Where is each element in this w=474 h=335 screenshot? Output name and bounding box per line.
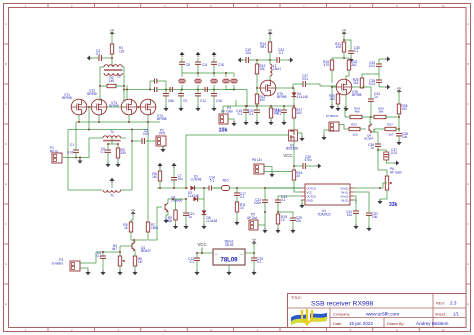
capacitor C27: [293, 74, 337, 88]
ground: [379, 84, 390, 89]
wire: [88, 107, 90, 130]
svg-text:10: 10: [297, 174, 301, 178]
connector P7 BFO: [326, 114, 349, 131]
svg-text:G: G: [5, 262, 7, 266]
connector P1 RF In: [50, 146, 62, 163]
capacitor C10: [183, 198, 195, 224]
diode D4: [292, 88, 308, 108]
capacitor C37: [377, 148, 397, 163]
svg-text:REV:: REV:: [436, 301, 445, 306]
wire: [166, 89, 247, 91]
power VCC flag: [197, 242, 206, 253]
svg-text:4k7: 4k7: [112, 247, 117, 251]
svg-text:G: G: [467, 262, 469, 266]
wire: [79, 115, 148, 122]
wire: [107, 138, 119, 145]
svg-text:R27: R27: [387, 123, 393, 127]
transistor Q2 2N3906: [148, 196, 182, 241]
svg-text:+9v: +9v: [252, 238, 257, 242]
svg-text:T2: T2: [110, 130, 114, 134]
transistor Q1 BC847: [132, 241, 151, 253]
ground: [321, 130, 329, 140]
svg-text:B: B: [5, 62, 7, 66]
transistor VT6: [336, 79, 361, 97]
ground: [163, 106, 168, 111]
wire: [96, 246, 132, 252]
power +9v AGC: [131, 208, 136, 215]
capacitor C33: [362, 87, 380, 118]
resistor R6: [133, 250, 143, 270]
resistor R9: [165, 199, 177, 224]
capacitor C34: [362, 59, 382, 74]
svg-text:R10: R10: [223, 179, 229, 183]
crystal Z1: [179, 73, 185, 90]
svg-text:VCC: VCC: [283, 153, 292, 158]
svg-text:10k: 10k: [219, 128, 228, 134]
svg-text:2k2: 2k2: [352, 63, 357, 67]
crystal Z3: [211, 73, 217, 90]
ground: [173, 224, 178, 229]
svg-text:BF998: BF998: [87, 92, 97, 96]
svg-text:BC847: BC847: [364, 137, 374, 141]
ground: [262, 225, 267, 233]
svg-text:0.01: 0.01: [143, 132, 149, 136]
ground: [100, 270, 105, 275]
svg-text:C8: C8: [186, 63, 190, 67]
svg-text:D: D: [467, 142, 469, 146]
svg-text:F: F: [467, 222, 469, 226]
ground: [288, 57, 293, 62]
svg-text:10uH: 10uH: [273, 67, 281, 71]
wire: [352, 86, 363, 88]
svg-text:10u: 10u: [372, 215, 378, 219]
wire detector line: [157, 187, 188, 189]
svg-text:56k: 56k: [379, 110, 384, 114]
wire: [196, 252, 213, 254]
svg-text:F: F: [5, 222, 7, 226]
capacitor C16: [211, 90, 222, 107]
wire: [344, 106, 346, 117]
resistor R10b: [269, 106, 279, 120]
wire in2: [354, 192, 369, 212]
ground: [329, 104, 334, 109]
wire: [87, 106, 91, 108]
svg-text:A: A: [5, 22, 7, 26]
svg-text:BF998: BF998: [62, 96, 72, 100]
resistor R13: [255, 88, 265, 106]
svg-text:10: 10: [281, 218, 285, 222]
capacitor C14b: [209, 176, 222, 191]
capacitor C18: [211, 58, 224, 73]
wire: [228, 265, 230, 270]
svg-text:0.1: 0.1: [101, 150, 106, 154]
wire gate bus: [76, 121, 160, 123]
svg-text:+9v: +9v: [131, 208, 136, 212]
svg-text:10u: 10u: [402, 135, 408, 139]
svg-text:2k2: 2k2: [353, 81, 358, 85]
wire: [100, 74, 124, 101]
capacitor C22a: [248, 106, 260, 120]
svg-text:100: 100: [402, 107, 408, 111]
wire: [269, 35, 271, 42]
resistor R20: [329, 94, 340, 106]
wire in1: [354, 187, 383, 189]
svg-text:LL4148: LL4148: [188, 194, 199, 198]
svg-text:0.1: 0.1: [190, 260, 195, 264]
sheet field: [435, 311, 459, 316]
transistor VT5: [260, 80, 286, 99]
power +9v reg: [252, 238, 257, 245]
svg-text:0.1: 0.1: [249, 112, 254, 116]
wire to P6: [378, 150, 387, 170]
regulator REG1 78L09: [213, 240, 245, 266]
capacitor C8: [179, 58, 190, 73]
date field: [333, 321, 373, 326]
svg-text:1M: 1M: [152, 175, 157, 179]
company field: [333, 312, 399, 318]
inductor R10 bead: [213, 179, 301, 191]
svg-text:S-meter: S-meter: [52, 261, 64, 265]
resistor R5: [123, 222, 132, 232]
capacitor C5: [149, 79, 167, 91]
svg-text:SSB receiver RX998: SSB receiver RX998: [311, 301, 374, 308]
svg-text:10u: 10u: [347, 213, 353, 217]
ground: [77, 159, 82, 164]
wire: [63, 138, 89, 158]
inductor L1: [270, 60, 281, 81]
ground: [194, 270, 199, 275]
svg-text:100u: 100u: [254, 201, 261, 205]
svg-text:C: C: [5, 102, 7, 106]
svg-text:RF In: RF In: [50, 149, 58, 153]
svg-text:www.ur5ffr.com: www.ur5ffr.com: [366, 312, 399, 318]
svg-text:0.1: 0.1: [240, 195, 245, 199]
resistor R7: [146, 222, 158, 232]
svg-text:0.1: 0.1: [354, 49, 359, 53]
svg-text:GND: GND: [307, 198, 313, 202]
connector P3 S-meter: [52, 258, 80, 271]
capacitor C6b: [163, 90, 174, 107]
resistor R24: [345, 107, 374, 119]
ground: [195, 52, 200, 57]
svg-text:1u: 1u: [370, 146, 374, 150]
ground: [316, 163, 321, 168]
ground: [396, 140, 401, 145]
capacitor C11: [195, 58, 208, 73]
capacitor C7pair: [150, 87, 166, 92]
svg-text:BF998: BF998: [157, 117, 167, 121]
transformer T2 secondary: [103, 190, 121, 198]
wire: [80, 252, 96, 263]
resistor R11: [235, 202, 246, 220]
resistor R19: [323, 58, 334, 83]
svg-text:0.1: 0.1: [277, 112, 282, 116]
resistor R16: [292, 170, 302, 192]
resistor R1: [110, 44, 124, 54]
svg-text:+9v: +9v: [397, 86, 402, 90]
ground: [335, 106, 340, 111]
svg-text:10u: 10u: [178, 177, 184, 181]
resistor R21: [335, 42, 346, 52]
svg-text:C9: C9: [183, 99, 187, 103]
svg-text:LL4148: LL4148: [191, 178, 202, 182]
power +9v VT6: [342, 28, 347, 35]
svg-text:D: D: [5, 142, 7, 146]
svg-text:Vout: Vout: [239, 253, 244, 256]
capacitor C22: [254, 198, 268, 213]
svg-text:78L09: 78L09: [220, 258, 238, 264]
svg-text:T1: T1: [117, 75, 121, 79]
ground: [211, 52, 216, 57]
capacitor C24: [277, 48, 284, 63]
wire: [264, 165, 295, 171]
connector P2 VFO: [156, 129, 166, 147]
title text SSB receiver RX998: [291, 296, 374, 308]
wire: [276, 87, 294, 89]
resistor R4: [112, 244, 125, 270]
svg-text:9R1: 9R1: [260, 45, 266, 49]
capacitor C1: [67, 130, 79, 158]
ground: [238, 57, 243, 62]
capacitor C30: [348, 46, 360, 57]
resistor R8: [152, 168, 162, 188]
ground: [281, 120, 286, 125]
wire bus: [223, 105, 294, 107]
svg-text:E: E: [5, 182, 7, 186]
svg-text:B: B: [467, 62, 469, 66]
diode D1: [190, 175, 209, 191]
svg-text:C11: C11: [202, 63, 208, 67]
diode D3: [202, 199, 218, 224]
svg-text:0.1: 0.1: [97, 254, 102, 258]
svg-text:100: 100: [336, 45, 342, 49]
svg-text:A: A: [467, 22, 469, 26]
wire: [131, 232, 148, 243]
capacitor C9: [178, 90, 187, 107]
svg-text:LL4148: LL4148: [207, 219, 218, 223]
wire: [332, 52, 349, 59]
wire: [246, 90, 248, 107]
svg-text:0.01: 0.01: [391, 151, 397, 155]
transformer T1: [100, 65, 124, 79]
wire: [264, 167, 272, 173]
svg-text:C18: C18: [218, 63, 224, 67]
transistor VT4: [140, 99, 166, 121]
ground: [268, 120, 273, 125]
svg-text:BF998: BF998: [352, 93, 362, 97]
svg-text:AF Out: AF Out: [247, 216, 257, 220]
svg-text:H: H: [5, 302, 7, 306]
svg-text:C16: C16: [216, 99, 222, 103]
rev field: [436, 301, 457, 306]
svg-text:0.1: 0.1: [96, 52, 101, 56]
svg-text:1/1: 1/1: [453, 311, 459, 316]
wire: [111, 183, 113, 188]
resistor R22: [346, 58, 358, 80]
svg-text:0.1: 0.1: [238, 112, 243, 116]
capacitor C23: [275, 195, 287, 212]
svg-text:VFO: VFO: [159, 132, 166, 136]
svg-text:+9v: +9v: [342, 28, 347, 32]
resistor R25: [353, 74, 364, 88]
svg-text:Date:: Date:: [333, 322, 342, 326]
capacitor C2: [131, 129, 156, 144]
transformer T2: [89, 130, 126, 141]
wire: [398, 93, 400, 104]
transistor VT1: [62, 93, 87, 115]
power VCC node: [283, 153, 292, 158]
svg-text:0.1: 0.1: [257, 260, 262, 264]
wire: [75, 122, 77, 130]
connector P8 12v: [252, 158, 264, 174]
wire filter chain: [123, 89, 150, 91]
capacitor C17a: [171, 168, 183, 188]
ground: [275, 228, 280, 233]
ground: [105, 162, 110, 167]
ground: [163, 218, 168, 223]
svg-text:Drawn By:: Drawn By:: [387, 322, 405, 326]
capacitor C17: [234, 188, 246, 202]
wire supply rail: [243, 59, 288, 61]
svg-text:BSS138: BSS138: [286, 147, 298, 151]
wire out1: [264, 187, 301, 200]
svg-text:10n: 10n: [245, 51, 251, 55]
wire: [331, 87, 333, 104]
ground: [353, 224, 358, 229]
wire in4: [354, 200, 356, 203]
capacitor C35: [369, 74, 382, 87]
svg-text:150k: 150k: [165, 219, 172, 223]
svg-text:0.01: 0.01: [67, 151, 73, 155]
ground: [348, 57, 353, 62]
wire: [253, 245, 255, 259]
ground: [231, 121, 236, 126]
svg-text:470: 470: [324, 63, 330, 67]
ground: [85, 270, 90, 275]
svg-text:+9v: +9v: [110, 28, 115, 32]
ground: [109, 178, 114, 183]
wire: [111, 35, 113, 66]
svg-text:300: 300: [260, 98, 266, 102]
svg-text:BC847: BC847: [141, 249, 151, 253]
capacitor C25: [251, 257, 263, 270]
ground: [394, 160, 399, 165]
svg-text:TDA2022: TDA2022: [317, 212, 331, 216]
svg-text:VCC: VCC: [197, 242, 206, 247]
svg-text:+9v: +9v: [268, 28, 273, 32]
ground: [290, 228, 295, 233]
capacitor C13: [188, 253, 200, 270]
wire: [120, 130, 132, 191]
wire: [137, 106, 140, 108]
wire: [343, 35, 351, 51]
ground: [201, 224, 206, 229]
svg-text:C12: C12: [200, 99, 206, 103]
wire filter top rail: [182, 72, 234, 74]
ground: [243, 120, 248, 125]
wire: [126, 85, 128, 99]
svg-text:33k: 33k: [389, 202, 398, 208]
capacitor C32: [366, 212, 378, 226]
wire: [331, 86, 336, 88]
svg-text:15 jan 2022: 15 jan 2022: [349, 321, 373, 326]
svg-text:P7 BFO2: P7 BFO2: [326, 114, 339, 118]
capacitor C31: [346, 199, 359, 224]
svg-text:C: C: [467, 102, 469, 106]
wire mute line: [186, 135, 289, 188]
capacitor C28a: [275, 106, 287, 120]
svg-text:5.1: 5.1: [210, 179, 215, 183]
svg-text:1u: 1u: [189, 215, 193, 219]
wire: [235, 100, 237, 106]
svg-text:BF998: BF998: [109, 104, 119, 108]
svg-text:E: E: [467, 182, 469, 186]
crystal Z4: [223, 73, 234, 90]
node R1-C3: [111, 57, 113, 59]
crystal Z5: [231, 73, 237, 90]
ukrainian flag logo: [291, 309, 327, 326]
crystal Z2: [195, 73, 201, 90]
ground: [366, 226, 371, 231]
svg-text:1u: 1u: [374, 95, 378, 99]
wire source bus: [76, 129, 148, 131]
ground: [195, 106, 200, 111]
ground: [115, 162, 120, 167]
wire: [107, 106, 121, 108]
ground: [179, 52, 184, 57]
ground: [343, 95, 348, 111]
wire out2: [278, 196, 301, 200]
svg-text:C1: C1: [70, 143, 74, 147]
power +9v small: [397, 86, 402, 93]
resistor R15: [276, 211, 287, 228]
potentiometer P6 AF Gain: [383, 167, 402, 208]
svg-text:P8 12v: P8 12v: [252, 158, 262, 162]
transistor VT2: [87, 89, 107, 115]
ic U1 TDA2822: [301, 184, 354, 216]
svg-text:Sheet:: Sheet:: [435, 312, 446, 316]
title block: [288, 294, 467, 328]
svg-text:470u: 470u: [304, 158, 311, 162]
resistor R17: [292, 108, 302, 131]
svg-text:2k2: 2k2: [297, 111, 302, 115]
wire: [269, 52, 271, 61]
svg-text:T2: T2: [110, 194, 114, 198]
resistor R28: [397, 104, 407, 132]
capacitor C19: [245, 48, 251, 63]
ground: [251, 270, 256, 275]
capacitor C6: [101, 144, 111, 162]
svg-text:C6b: C6b: [168, 99, 174, 103]
svg-text:LL4148: LL4148: [297, 95, 308, 99]
ground: [299, 200, 304, 208]
ground: [377, 196, 387, 204]
svg-text:150k: 150k: [151, 226, 158, 230]
capacitor C26: [294, 155, 316, 169]
ground: [269, 172, 274, 177]
resistor R23: [349, 123, 366, 137]
ground: [379, 56, 390, 61]
ground: [183, 224, 188, 229]
wire: [245, 252, 255, 254]
svg-text:1k*: 1k*: [138, 260, 143, 264]
svg-text:Company:: Company:: [333, 312, 350, 316]
svg-text:330: 330: [121, 151, 127, 155]
diode D2: [188, 187, 205, 201]
resistor R26: [374, 107, 399, 119]
transistor Q4 BC847: [364, 117, 385, 141]
ground: [160, 146, 165, 152]
